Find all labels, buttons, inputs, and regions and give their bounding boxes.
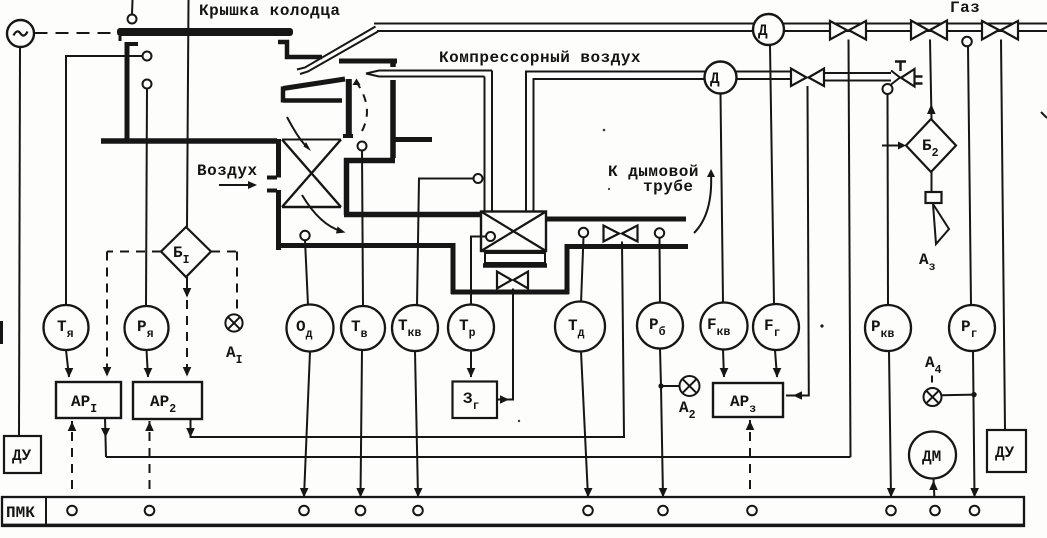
svg-text:Крышка колодца: Крышка колодца: [199, 2, 340, 20]
svg-text:Д: Д: [758, 22, 768, 40]
svg-text:ДУ: ДУ: [12, 447, 32, 465]
svg-text:ДМ: ДМ: [922, 448, 941, 466]
svg-text:Компрессорный воздух: Компрессорный воздух: [439, 49, 641, 67]
svg-text:Воздух: Воздух: [197, 162, 258, 180]
svg-text:Газ: Газ: [950, 0, 980, 17]
svg-text:Д: Д: [710, 70, 720, 88]
svg-text:ДУ: ДУ: [995, 444, 1015, 462]
svg-text:трубе: трубе: [643, 178, 694, 196]
svg-text:ПМК: ПМК: [6, 504, 35, 522]
